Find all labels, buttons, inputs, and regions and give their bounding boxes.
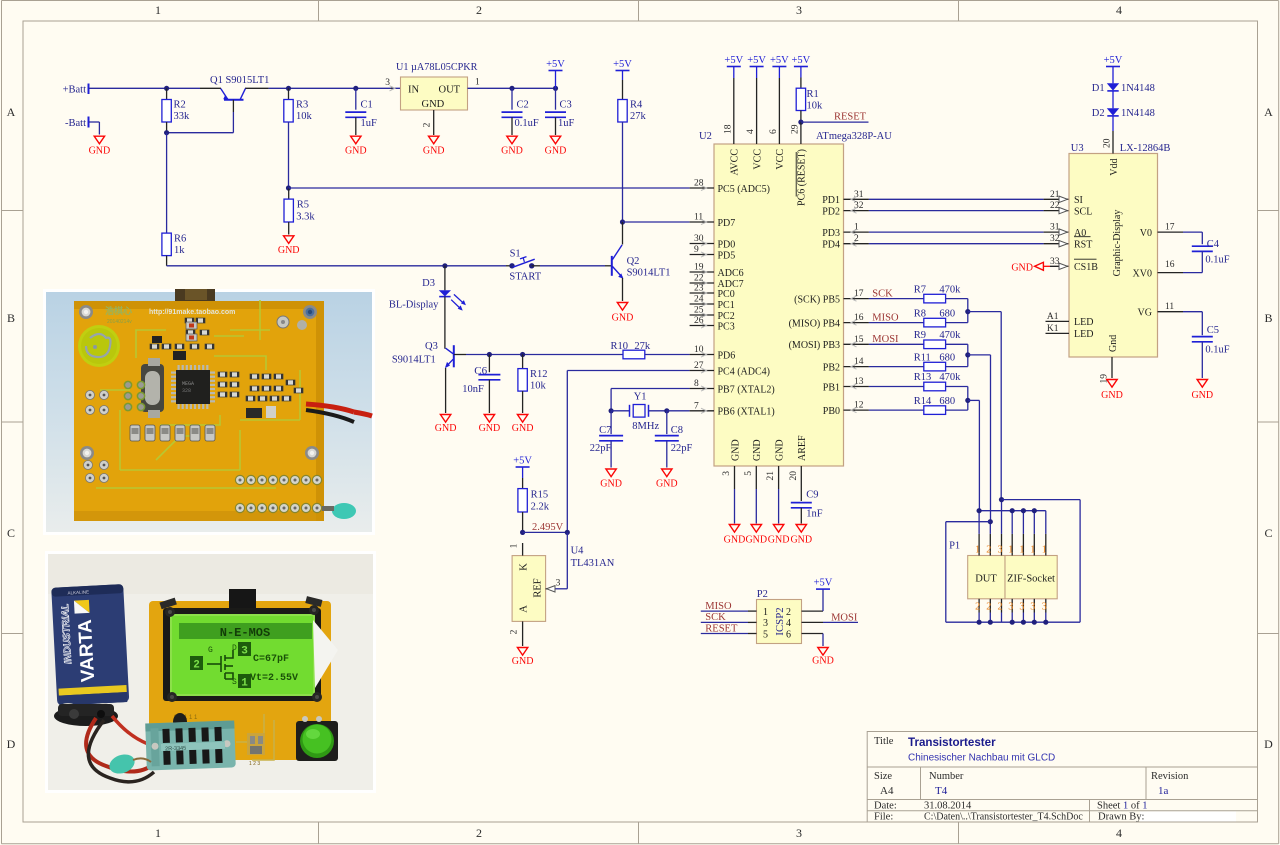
wire Q1 base to R2 bbox=[167, 132, 234, 134]
svg-text:30: 30 bbox=[694, 234, 704, 244]
svg-text:GND: GND bbox=[278, 245, 300, 256]
svg-text:START: START bbox=[509, 272, 541, 283]
ground GND Q2 bbox=[612, 303, 634, 324]
svg-text:10: 10 bbox=[694, 345, 704, 355]
svg-text:2: 2 bbox=[423, 122, 433, 127]
svg-text:11: 11 bbox=[1165, 302, 1174, 312]
ground GND CS1B bbox=[1011, 257, 1069, 274]
resistor R12 bbox=[518, 352, 548, 413]
svg-text:2: 2 bbox=[510, 629, 520, 634]
svg-text:9: 9 bbox=[694, 245, 699, 255]
svg-text:RST: RST bbox=[1074, 240, 1092, 251]
svg-text:PB6 (XTAL1): PB6 (XTAL1) bbox=[718, 407, 775, 418]
svg-text:S: S bbox=[232, 678, 237, 687]
svg-text:Revision: Revision bbox=[1151, 771, 1189, 782]
ground GND P2 bbox=[812, 648, 834, 667]
net label SCK P2 bbox=[701, 612, 768, 629]
capacitor C5 bbox=[1183, 312, 1230, 378]
ground GND C8 bbox=[656, 469, 678, 490]
svg-text:File:: File: bbox=[874, 812, 893, 823]
svg-text:C3: C3 bbox=[560, 100, 572, 111]
svg-text:4: 4 bbox=[746, 129, 756, 134]
svg-text:GND: GND bbox=[724, 535, 746, 546]
svg-text:0.1uF: 0.1uF bbox=[1205, 345, 1229, 356]
socket ZIF body bbox=[1005, 556, 1057, 599]
svg-text:LX-12864B: LX-12864B bbox=[1120, 143, 1171, 154]
svg-text:2: 2 bbox=[476, 826, 482, 840]
power +5V VCC6 bbox=[770, 55, 789, 67]
svg-text:18: 18 bbox=[723, 124, 733, 134]
svg-text:PC3: PC3 bbox=[718, 321, 735, 332]
svg-text:2: 2 bbox=[854, 234, 859, 244]
power +5V R4 bbox=[613, 59, 632, 100]
svg-text:+5V: +5V bbox=[546, 59, 565, 70]
svg-text:1N4148: 1N4148 bbox=[1121, 108, 1155, 119]
svg-text:REF: REF bbox=[533, 578, 544, 597]
svg-text:+5V: +5V bbox=[1104, 55, 1123, 66]
svg-text:V0: V0 bbox=[1140, 228, 1152, 239]
svg-text:3: 3 bbox=[241, 646, 248, 658]
svg-text:R8: R8 bbox=[914, 308, 926, 319]
ground GND R5 bbox=[278, 236, 300, 256]
svg-text:PD2: PD2 bbox=[822, 206, 840, 217]
svg-text:10k: 10k bbox=[296, 111, 313, 122]
svg-text:Date:: Date: bbox=[874, 801, 897, 812]
svg-text:C: C bbox=[7, 526, 15, 540]
svg-text:C=67pF: C=67pF bbox=[253, 654, 289, 665]
wire 2.495V node bbox=[523, 530, 570, 589]
svg-text:29: 29 bbox=[790, 124, 800, 134]
svg-text:PD0: PD0 bbox=[718, 239, 736, 250]
svg-text:3: 3 bbox=[556, 579, 561, 589]
svg-text:PC4 (ADC4): PC4 (ADC4) bbox=[718, 366, 771, 377]
resistor R3 bbox=[284, 86, 313, 191]
svg-text:Q2: Q2 bbox=[627, 256, 640, 267]
svg-text:Transistortester: Transistortester bbox=[908, 736, 996, 749]
svg-text:GND: GND bbox=[612, 313, 634, 324]
svg-text:16: 16 bbox=[854, 313, 864, 323]
svg-text:U2: U2 bbox=[699, 131, 712, 142]
resistor R1 bbox=[796, 67, 823, 145]
svg-text:11: 11 bbox=[694, 213, 703, 223]
svg-text:PB1: PB1 bbox=[823, 382, 840, 393]
svg-text:GND: GND bbox=[422, 99, 445, 110]
svg-text:13: 13 bbox=[854, 377, 864, 387]
svg-text:http://91make.taobao.com: http://91make.taobao.com bbox=[149, 309, 235, 316]
svg-text:32: 32 bbox=[1050, 234, 1060, 244]
resistor R15 bbox=[518, 489, 550, 535]
svg-text:S1: S1 bbox=[510, 249, 521, 260]
svg-text:SI: SI bbox=[1074, 195, 1083, 206]
svg-text:CS1B: CS1B bbox=[1074, 262, 1098, 273]
svg-text:(MISO) PB4: (MISO) PB4 bbox=[789, 318, 840, 329]
wire PC5 from R3/R5 node bbox=[289, 187, 690, 189]
svg-text:470k: 470k bbox=[939, 284, 961, 295]
svg-text:8MHz: 8MHz bbox=[632, 421, 659, 432]
svg-text:6: 6 bbox=[786, 629, 791, 640]
net label MISO P2 bbox=[701, 601, 768, 618]
ground GND pin21 bbox=[768, 525, 790, 546]
svg-text:SCK: SCK bbox=[705, 612, 726, 623]
svg-text:ATmega328P-AU: ATmega328P-AU bbox=[816, 131, 892, 142]
svg-text:20: 20 bbox=[1103, 138, 1113, 148]
svg-text:(MOSI) PB3: (MOSI) PB3 bbox=[789, 340, 840, 351]
svg-text:GND: GND bbox=[512, 423, 534, 434]
svg-text:2R-3345: 2R-3345 bbox=[165, 746, 186, 753]
ground GND C3 bbox=[545, 136, 567, 156]
svg-text:C8: C8 bbox=[671, 425, 683, 436]
svg-text:OUT: OUT bbox=[439, 85, 461, 96]
svg-text:680: 680 bbox=[939, 352, 955, 363]
svg-text:GND: GND bbox=[752, 439, 763, 461]
socket P1 pin stubs bbox=[975, 534, 1047, 622]
ground GND C6 bbox=[479, 415, 501, 435]
wire pair R7-R8 bbox=[965, 299, 1001, 323]
svg-text:3: 3 bbox=[722, 471, 732, 476]
svg-text:MEGA: MEGA bbox=[182, 381, 194, 387]
resistor R7 bbox=[869, 284, 968, 303]
svg-text:PD4: PD4 bbox=[822, 240, 840, 251]
display U3 left pin names bbox=[1074, 195, 1098, 273]
svg-text:1nF: 1nF bbox=[806, 509, 823, 520]
svg-text:MOSI: MOSI bbox=[872, 334, 899, 345]
regulator U1 bbox=[385, 62, 480, 135]
svg-text:5: 5 bbox=[763, 629, 768, 640]
svg-text:33k: 33k bbox=[174, 111, 191, 122]
transistor Q2 bbox=[612, 222, 671, 301]
svg-text:8: 8 bbox=[694, 379, 699, 389]
svg-text:K1: K1 bbox=[1047, 324, 1059, 334]
wire pair R13-R14 bbox=[965, 387, 979, 411]
mcu U2 right pins bbox=[789, 190, 869, 417]
svg-text:PD3: PD3 bbox=[822, 228, 840, 239]
svg-text:GND: GND bbox=[345, 145, 367, 156]
power +5V R15 bbox=[513, 456, 532, 489]
svg-text:VCC: VCC bbox=[752, 149, 763, 170]
svg-text:TL431AN: TL431AN bbox=[571, 558, 615, 569]
power +5V VCC4 bbox=[747, 55, 766, 67]
svg-text:2: 2 bbox=[975, 602, 980, 613]
svg-text:20: 20 bbox=[789, 471, 799, 481]
svg-text:Q3: Q3 bbox=[425, 341, 438, 352]
svg-text:ZIF-Socket: ZIF-Socket bbox=[1007, 574, 1055, 585]
svg-text:AREF: AREF bbox=[797, 435, 808, 461]
resistor R10 bbox=[611, 341, 690, 359]
svg-text:A: A bbox=[7, 105, 16, 119]
ground GND pin3 bbox=[724, 525, 746, 546]
svg-text:+5V: +5V bbox=[724, 55, 743, 66]
wire PD7 bbox=[623, 221, 690, 223]
power +5V C3 bbox=[546, 59, 565, 88]
wire PC4 to reference bbox=[567, 371, 689, 533]
svg-text:GND: GND bbox=[1011, 262, 1033, 273]
svg-text:MISO: MISO bbox=[705, 601, 732, 612]
ground GND U4 bbox=[512, 648, 534, 668]
svg-text:1a: 1a bbox=[1158, 785, 1169, 797]
crystal Y1 bbox=[611, 392, 669, 433]
mcu U2 left pins bbox=[690, 179, 775, 418]
svg-text:A1: A1 bbox=[1047, 312, 1059, 322]
transistor Q3 bbox=[392, 297, 454, 413]
resistor R8 bbox=[869, 308, 968, 327]
svg-text:22: 22 bbox=[1050, 201, 1060, 211]
svg-text:RESET: RESET bbox=[705, 623, 738, 634]
svg-text:GND: GND bbox=[656, 479, 678, 490]
svg-text:U1 µA78L05CPKR: U1 µA78L05CPKR bbox=[396, 62, 478, 73]
svg-text:LED: LED bbox=[1074, 329, 1093, 340]
svg-text:1: 1 bbox=[1019, 545, 1024, 556]
svg-text:3: 3 bbox=[1008, 602, 1013, 613]
net label SCK bbox=[872, 288, 893, 299]
svg-text:10k: 10k bbox=[530, 381, 547, 392]
svg-text:C4: C4 bbox=[1207, 239, 1220, 250]
svg-text:2: 2 bbox=[998, 602, 1003, 613]
wire bus4 U2-U3 bbox=[869, 234, 1069, 247]
svg-text:23: 23 bbox=[694, 284, 704, 294]
svg-text:1: 1 bbox=[241, 678, 248, 690]
svg-text:Vdd: Vdd bbox=[1109, 159, 1120, 176]
svg-text:R15: R15 bbox=[531, 490, 549, 501]
svg-text:B: B bbox=[1264, 311, 1272, 325]
svg-text:U4: U4 bbox=[571, 546, 585, 557]
svg-text:GND: GND bbox=[1101, 390, 1123, 401]
display U3 body bbox=[1069, 116, 1170, 357]
wire P1 pin3 drop bbox=[999, 497, 1004, 534]
svg-text:1: 1 bbox=[510, 543, 520, 548]
wire bus3 U2-U3 bbox=[869, 223, 1069, 236]
diode D1 bbox=[1092, 67, 1155, 95]
svg-text:21: 21 bbox=[766, 471, 776, 481]
svg-text:22pF: 22pF bbox=[590, 443, 612, 454]
svg-text:R7: R7 bbox=[914, 284, 926, 295]
svg-text:15: 15 bbox=[854, 335, 864, 345]
display U3 LED pins bbox=[1046, 312, 1094, 340]
wire Q3 base bbox=[454, 354, 623, 356]
svg-text:GND: GND bbox=[790, 535, 812, 546]
svg-text:C9: C9 bbox=[806, 490, 818, 501]
svg-text:GND: GND bbox=[512, 656, 534, 667]
svg-text:680: 680 bbox=[939, 308, 955, 319]
svg-text:28: 28 bbox=[694, 179, 704, 189]
svg-text:31.08.2014: 31.08.2014 bbox=[924, 801, 972, 812]
svg-text:21: 21 bbox=[1050, 190, 1060, 200]
svg-text:7: 7 bbox=[694, 401, 699, 411]
svg-text:19: 19 bbox=[694, 263, 704, 273]
svg-text:27: 27 bbox=[694, 361, 704, 371]
ground GND pin5 bbox=[745, 525, 767, 546]
ground GND -Batt bbox=[89, 136, 111, 156]
wire pair R9-R11 bbox=[965, 344, 990, 366]
svg-text:1: 1 bbox=[1030, 545, 1035, 556]
svg-text:1: 1 bbox=[975, 545, 980, 556]
svg-text:ADC6: ADC6 bbox=[718, 268, 744, 279]
ground GND C7 bbox=[600, 469, 622, 490]
svg-text:GND: GND bbox=[435, 423, 457, 434]
svg-text:GND: GND bbox=[730, 439, 741, 461]
wire probe3 vertical bbox=[1000, 312, 1002, 500]
photo of PCB board bbox=[43, 289, 375, 535]
display U3 right pins bbox=[1133, 223, 1183, 319]
svg-text:-Batt: -Batt bbox=[65, 118, 86, 129]
svg-text:R12: R12 bbox=[530, 369, 548, 380]
svg-text:SCL: SCL bbox=[1074, 206, 1092, 217]
svg-text:(SCK) PB5: (SCK) PB5 bbox=[794, 294, 840, 305]
svg-text:2.2k: 2.2k bbox=[531, 502, 550, 513]
svg-text:2: 2 bbox=[986, 545, 991, 556]
svg-text:1uF: 1uF bbox=[361, 118, 378, 129]
capacitor C2 bbox=[502, 86, 539, 135]
resistor R9 bbox=[869, 330, 968, 349]
svg-text:10k: 10k bbox=[807, 101, 824, 112]
svg-text:3: 3 bbox=[1042, 602, 1047, 613]
svg-text:PC0: PC0 bbox=[718, 289, 735, 300]
svg-text:GND: GND bbox=[812, 656, 834, 667]
svg-text:26: 26 bbox=[694, 316, 704, 326]
svg-text:C2: C2 bbox=[517, 100, 529, 111]
svg-text:14: 14 bbox=[854, 357, 864, 367]
svg-text:31: 31 bbox=[1050, 223, 1060, 233]
wire U1 OUT to +5V bbox=[468, 87, 556, 89]
svg-text:Size: Size bbox=[874, 771, 892, 782]
net label RESET P2 bbox=[701, 623, 768, 640]
svg-text:PD5: PD5 bbox=[718, 250, 736, 261]
svg-text:S9014LT1: S9014LT1 bbox=[627, 268, 671, 279]
photo of assembled tester with battery bbox=[45, 551, 376, 793]
connector P2 body bbox=[757, 589, 802, 644]
svg-text:+5V: +5V bbox=[814, 578, 833, 589]
svg-text:22pF: 22pF bbox=[671, 443, 693, 454]
net label RESET bbox=[801, 111, 869, 122]
svg-text:U3: U3 bbox=[1071, 143, 1084, 154]
svg-text:PB2: PB2 bbox=[823, 362, 840, 373]
svg-text:R11: R11 bbox=[914, 352, 931, 363]
svg-text:328: 328 bbox=[182, 388, 191, 394]
svg-text:5: 5 bbox=[744, 471, 754, 476]
svg-text:C7: C7 bbox=[599, 425, 611, 436]
svg-text:P2: P2 bbox=[757, 589, 768, 600]
svg-text:D1: D1 bbox=[1092, 83, 1105, 94]
svg-text:0.1uF: 0.1uF bbox=[515, 118, 539, 129]
wire S1 to Q2 base bbox=[532, 265, 612, 267]
svg-text:GND: GND bbox=[423, 145, 445, 156]
svg-text:C: C bbox=[1264, 526, 1272, 540]
diode D2 bbox=[1092, 91, 1155, 119]
svg-text:D: D bbox=[1264, 737, 1273, 751]
svg-text:MOSI: MOSI bbox=[831, 612, 858, 623]
svg-text:Drawn By:: Drawn By: bbox=[1098, 812, 1144, 823]
wire XTAL1 bbox=[667, 410, 690, 412]
svg-text:MISO: MISO bbox=[872, 312, 899, 323]
mcu U2 bottom pins bbox=[722, 435, 808, 524]
wire R2 to R6 bbox=[166, 133, 168, 233]
svg-text:6: 6 bbox=[769, 129, 779, 134]
svg-text:3: 3 bbox=[796, 3, 802, 17]
svg-text:+5V: +5V bbox=[613, 59, 632, 70]
capacitor C4 bbox=[1183, 232, 1230, 273]
svg-text:SCK: SCK bbox=[872, 288, 893, 299]
port +Batt bbox=[63, 84, 89, 96]
power +5V AVCC bbox=[724, 55, 743, 67]
wire P1 pin2 drop bbox=[988, 519, 993, 534]
svg-text:17: 17 bbox=[854, 289, 864, 299]
ground GND Q3 bbox=[435, 415, 457, 435]
capacitor C7 bbox=[590, 411, 623, 468]
svg-text:PD1: PD1 bbox=[822, 195, 840, 206]
svg-text:GND: GND bbox=[768, 535, 790, 546]
svg-text:D: D bbox=[232, 644, 237, 653]
resistor R14 bbox=[869, 396, 968, 415]
power +5V R1 bbox=[792, 55, 811, 67]
svg-text:10nF: 10nF bbox=[462, 384, 484, 395]
svg-text:1: 1 bbox=[1042, 545, 1047, 556]
svg-text:GND: GND bbox=[89, 145, 111, 156]
capacitor C8 bbox=[655, 411, 693, 468]
svg-text:1k: 1k bbox=[174, 245, 185, 256]
svg-text:25: 25 bbox=[694, 306, 704, 316]
svg-text:+5V: +5V bbox=[792, 55, 811, 66]
svg-text:R13: R13 bbox=[914, 372, 932, 383]
connector P2 right pins bbox=[786, 589, 858, 646]
svg-text:PC6 (RESET): PC6 (RESET) bbox=[797, 149, 808, 206]
svg-text:Chinesischer Nachbau mit GLCD: Chinesischer Nachbau mit GLCD bbox=[908, 753, 1055, 764]
svg-text:AVCC: AVCC bbox=[730, 149, 741, 176]
svg-text:GND: GND bbox=[1191, 390, 1213, 401]
svg-text:12: 12 bbox=[854, 401, 864, 411]
svg-text:R5: R5 bbox=[297, 200, 309, 211]
resistor R2 bbox=[162, 86, 190, 136]
svg-text:3: 3 bbox=[763, 618, 768, 629]
svg-text:31: 31 bbox=[854, 190, 864, 200]
svg-text:K: K bbox=[519, 563, 530, 571]
svg-text:R14: R14 bbox=[914, 396, 932, 407]
title block text bbox=[874, 736, 1189, 823]
svg-text:C6: C6 bbox=[474, 365, 487, 377]
svg-text:+5V: +5V bbox=[513, 456, 532, 467]
wire probe1 vertical bbox=[978, 400, 980, 510]
title block grid bbox=[867, 732, 1257, 823]
wire P1 box bbox=[946, 500, 1080, 625]
wire XTAL2 bbox=[609, 389, 690, 414]
svg-text:2: 2 bbox=[786, 607, 791, 618]
svg-text:Title: Title bbox=[874, 736, 894, 747]
svg-text:3: 3 bbox=[998, 545, 1003, 556]
display U3 Gnd pin bbox=[1100, 357, 1113, 384]
svg-text:VG: VG bbox=[1138, 308, 1152, 319]
svg-text:C:\Daten\..\Transistortester_T: C:\Daten\..\Transistortester_T4.SchDoc bbox=[924, 812, 1083, 823]
net label 2.495V bbox=[532, 522, 564, 533]
svg-text:A: A bbox=[1264, 105, 1273, 119]
svg-text:GND: GND bbox=[745, 535, 767, 546]
svg-text:R4: R4 bbox=[630, 100, 643, 111]
svg-text:C5: C5 bbox=[1207, 325, 1219, 336]
resistor R11 bbox=[869, 352, 968, 371]
svg-text:IN: IN bbox=[408, 85, 419, 96]
resistor R5 bbox=[284, 188, 315, 235]
svg-text:2: 2 bbox=[476, 3, 482, 17]
svg-text:1: 1 bbox=[475, 78, 480, 88]
ground GND C1 bbox=[345, 136, 367, 156]
capacitor C6 bbox=[462, 352, 500, 413]
svg-text:PC1: PC1 bbox=[718, 300, 735, 311]
svg-text:GND: GND bbox=[501, 145, 523, 156]
svg-text:R2: R2 bbox=[174, 100, 186, 111]
wire probe2 vertical bbox=[990, 355, 992, 522]
diode D3 LED bbox=[389, 263, 466, 310]
svg-text:17: 17 bbox=[1165, 223, 1175, 233]
svg-text:1 2 3: 1 2 3 bbox=[249, 761, 260, 767]
socket DUT body bbox=[968, 556, 1005, 599]
net label MOSI P2 bbox=[831, 612, 858, 623]
